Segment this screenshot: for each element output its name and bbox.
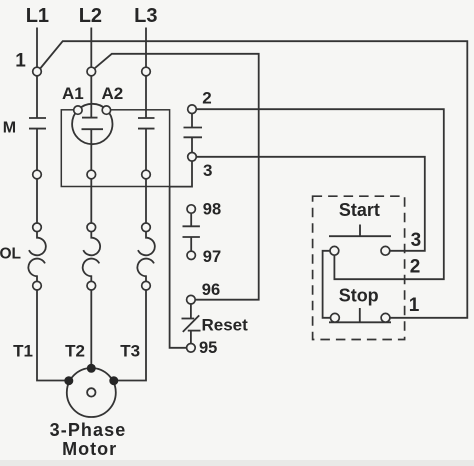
- wire L2 to OL terminal 96: [95, 54, 259, 300]
- terminal Start right: [381, 246, 390, 255]
- Start pushbutton (NO): [329, 225, 391, 237]
- OL aux contact 98-97: [183, 213, 200, 251]
- svg-text:3: 3: [411, 230, 422, 251]
- pushbutton station dashed enclosure: [313, 196, 405, 339]
- motor body: [67, 368, 116, 417]
- OL heater phase L1: [28, 232, 45, 282]
- svg-text:Motor: Motor: [62, 439, 117, 459]
- coil M circle (A1-A2): [72, 104, 112, 144]
- wire L1 run to motor: [37, 281, 69, 380]
- terminal L2 OL top: [87, 223, 96, 232]
- OL heater phase L2: [83, 232, 100, 282]
- svg-text:L1: L1: [26, 5, 49, 27]
- svg-text:T1: T1: [13, 342, 33, 361]
- terminal 97: [187, 251, 195, 259]
- contactor box: [61, 110, 169, 187]
- terminal 95: [187, 344, 196, 353]
- wire 2 : aux contact 2 to Start left terminal: [196, 109, 444, 279]
- terminal L3 contactor bottom: [142, 170, 151, 179]
- terminal 96: [187, 295, 196, 304]
- svg-text:2: 2: [410, 256, 421, 277]
- terminal A2: [102, 106, 110, 114]
- wire box corner down to OL terminal 95: [170, 187, 187, 348]
- svg-text:Stop: Stop: [339, 286, 379, 306]
- terminal Stop left: [331, 313, 340, 322]
- terminal L3 OL top: [142, 223, 151, 232]
- svg-text:T3: T3: [120, 342, 140, 361]
- svg-text:Start: Start: [339, 200, 380, 220]
- svg-text:98: 98: [203, 201, 221, 219]
- svg-text:97: 97: [203, 248, 221, 266]
- svg-text:Reset: Reset: [202, 316, 249, 335]
- OL reset contact 96-95: [182, 304, 201, 344]
- svg-text:M: M: [3, 120, 16, 137]
- svg-text:1: 1: [15, 51, 26, 72]
- svg-text:95: 95: [199, 339, 217, 357]
- terminal A1: [74, 106, 82, 114]
- svg-text:A1: A1: [62, 84, 84, 103]
- motor terminal dot T2: [87, 364, 96, 373]
- wire Stop left to Start left: [323, 251, 331, 318]
- svg-text:2: 2: [202, 89, 211, 108]
- motor terminal dot T3: [109, 376, 118, 385]
- wire L3 drop: [145, 28, 147, 119]
- terminal aux 2: [188, 105, 197, 114]
- terminal 98: [187, 205, 195, 213]
- wire L3 mid run: [145, 129, 147, 232]
- svg-text:OL: OL: [0, 246, 21, 263]
- terminal T3: [142, 281, 151, 290]
- wire 1 : L1 terminal to Stop right terminal: [40, 41, 467, 318]
- bottom edge band: [0, 460, 474, 466]
- terminal L1 OL top: [33, 223, 42, 232]
- svg-text:T2: T2: [65, 342, 85, 361]
- terminal T2: [87, 281, 96, 290]
- svg-text:96: 96: [202, 281, 220, 299]
- svg-text:3-Phase: 3-Phase: [50, 420, 127, 440]
- svg-text:1: 1: [409, 295, 420, 316]
- aux contact 2-3: [184, 113, 203, 152]
- terminal aux 3: [188, 153, 197, 162]
- motor terminal dot T1: [64, 376, 73, 385]
- OL heater phase L3: [137, 232, 154, 282]
- wire L2 run to motor: [90, 281, 92, 368]
- terminal L2 line-side: [87, 67, 96, 76]
- terminal T1: [33, 281, 42, 290]
- Stop pushbutton (NC): [329, 308, 391, 322]
- terminal L3 line-side: [142, 67, 151, 76]
- terminal L1 line-side: [33, 67, 42, 76]
- wire L2 drop: [90, 28, 92, 118]
- wire 3 : aux contact 3 to Start right terminal: [196, 157, 425, 251]
- terminal L1 contactor bottom: [33, 170, 42, 179]
- svg-text:L2: L2: [79, 5, 102, 27]
- wire L3 run to motor: [114, 281, 146, 380]
- motor shaft circle: [87, 388, 95, 396]
- svg-text:A2: A2: [102, 84, 124, 103]
- wire L1 drop: [36, 28, 38, 119]
- contact M phase L1 bars: [29, 118, 46, 129]
- svg-text:3: 3: [203, 161, 212, 180]
- terminal L2 contactor bottom: [87, 170, 96, 179]
- contact M phase L3 bars: [138, 118, 155, 129]
- terminal Start left: [330, 246, 339, 255]
- terminal Stop right: [381, 313, 390, 322]
- wire L1 mid run: [36, 129, 38, 232]
- contact M phase L2 bars (inside coil): [82, 118, 104, 130]
- wire aux 3 stub to box corner: [170, 161, 192, 186]
- wire L2 mid run: [90, 129, 92, 232]
- svg-text:L3: L3: [134, 5, 157, 27]
